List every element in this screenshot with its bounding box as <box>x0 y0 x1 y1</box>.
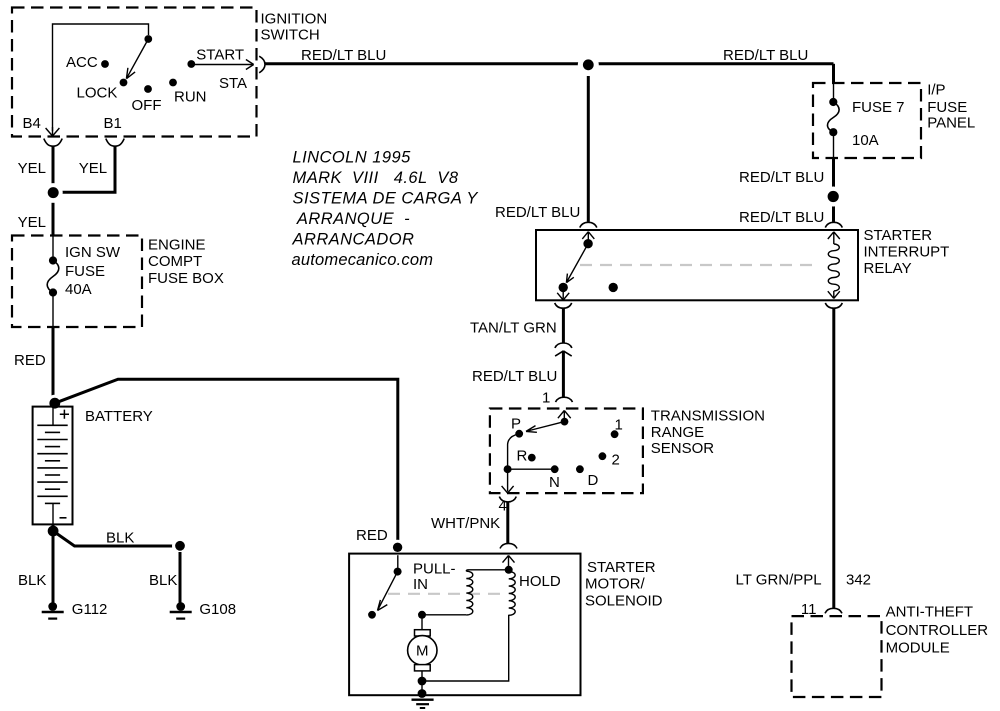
arrow relay left exit <box>557 293 569 300</box>
node starter feed junction <box>390 540 405 555</box>
svg-text:1: 1 <box>542 389 550 406</box>
contact D <box>576 465 584 473</box>
svg-text:PANEL: PANEL <box>927 115 975 132</box>
node solenoid switch pivot <box>394 568 402 576</box>
wire RED to starter <box>55 379 398 547</box>
svg-text:RED/LT BLU: RED/LT BLU <box>495 204 580 221</box>
node battery positive junction <box>46 395 63 412</box>
svg-text:BATTERY: BATTERY <box>85 408 153 425</box>
wire to I/P fuse panel <box>832 64 835 83</box>
svg-text:SISTEMA DE CARGA Y: SISTEMA DE CARGA Y <box>293 190 479 208</box>
arrow TRS input <box>558 411 571 422</box>
battery plus sign <box>60 410 69 419</box>
contact P <box>515 430 523 438</box>
svg-text:IGN SW: IGN SW <box>65 244 121 261</box>
arrow starter input <box>503 556 515 570</box>
node YEL junction <box>44 183 63 202</box>
svg-text:TAN/LT GRN: TAN/LT GRN <box>470 320 557 337</box>
svg-text:IGNITION: IGNITION <box>261 11 328 28</box>
starter interrupt relay box <box>536 230 858 300</box>
wire out of fuse <box>52 293 54 328</box>
svg-text:ANTI-THEFT: ANTI-THEFT <box>886 603 974 620</box>
svg-text:RED/LT BLU: RED/LT BLU <box>301 47 386 64</box>
connector starter input <box>500 543 517 548</box>
connector at ignition output <box>259 56 265 73</box>
relay mechanical link <box>580 264 818 266</box>
wire START to output <box>191 64 252 66</box>
relay contact lower <box>559 283 568 292</box>
arrow relay coil exit <box>828 291 840 298</box>
svg-text:STARTER: STARTER <box>864 227 933 244</box>
solenoid mechanical link <box>388 593 505 595</box>
svg-text:SENSOR: SENSOR <box>651 440 715 457</box>
node rotor pivot <box>144 35 152 43</box>
TRS wiper arrow <box>526 422 565 433</box>
svg-text:STARTER: STARTER <box>587 559 656 576</box>
connector B4 <box>44 139 62 147</box>
connector relay coil input <box>825 222 842 227</box>
svg-text:FUSE BOX: FUSE BOX <box>148 270 224 287</box>
arrow into B4 <box>46 127 60 136</box>
svg-text:4: 4 <box>499 498 507 515</box>
solenoid contact <box>368 611 376 619</box>
svg-text:RUN: RUN <box>174 89 207 106</box>
node BLK junction <box>172 538 188 554</box>
wire motor bottom <box>421 671 423 694</box>
node hold coil top <box>505 566 513 574</box>
battery plates <box>37 425 67 503</box>
ground G112 <box>48 602 57 611</box>
node motor negative <box>418 677 427 686</box>
svg-text:HOLD: HOLD <box>519 573 561 590</box>
svg-text:ARRANQUE -: ARRANQUE - <box>293 210 411 228</box>
contact LOCK <box>120 79 128 87</box>
inline connector female half <box>555 343 572 348</box>
wire RED/LT BLU top <box>265 62 834 65</box>
svg-text:CONTROLLER: CONTROLLER <box>886 622 989 639</box>
svg-text:COMPT: COMPT <box>148 253 202 270</box>
svg-text:BLK: BLK <box>106 530 134 547</box>
svg-text:STA: STA <box>219 75 247 92</box>
svg-text:LOCK: LOCK <box>77 85 118 102</box>
contact START <box>187 60 195 68</box>
wire into fuse <box>52 236 54 261</box>
svg-text:RANGE: RANGE <box>651 424 704 441</box>
wire RED battery feed <box>52 327 55 403</box>
node battery negative <box>48 526 59 537</box>
svg-text:D: D <box>588 472 599 489</box>
svg-text:RED/LT BLU: RED/LT BLU <box>739 169 824 186</box>
wire down to G108 <box>179 552 182 607</box>
svg-text:FUSE 7: FUSE 7 <box>852 99 905 116</box>
contact N <box>551 465 559 473</box>
solenoid wiper arrow <box>378 572 398 611</box>
transmission range sensor box <box>490 409 643 494</box>
battery positive stem <box>52 407 54 426</box>
svg-text:RED/LT BLU: RED/LT BLU <box>472 368 557 385</box>
wire fuse7 to relay <box>832 158 835 222</box>
pull-in coil <box>466 570 508 571</box>
connector anti-theft input <box>825 608 842 613</box>
wire YEL down <box>52 203 55 236</box>
svg-text:BLK: BLK <box>149 572 177 589</box>
contact 2 <box>599 452 607 460</box>
contact 1 <box>611 430 619 438</box>
node motor top junction <box>418 611 426 619</box>
svg-text:SWITCH: SWITCH <box>261 27 320 44</box>
svg-text:OFF: OFF <box>132 97 162 114</box>
svg-text:ENGINE: ENGINE <box>148 237 206 254</box>
svg-text:RED: RED <box>14 352 46 369</box>
node case ground <box>418 689 427 698</box>
wire into fuse 7 <box>833 83 835 102</box>
svg-text:P: P <box>511 416 521 433</box>
relay wiper arrow <box>566 244 588 283</box>
svg-text:LINCOLN 1995: LINCOLN 1995 <box>293 149 412 167</box>
svg-text:10A: 10A <box>852 132 879 149</box>
svg-text:B4: B4 <box>23 115 41 132</box>
svg-text:B1: B1 <box>104 115 122 132</box>
wire BLK to G108 <box>53 531 180 546</box>
svg-text:RED: RED <box>356 527 388 544</box>
connector relay coil exit <box>825 303 842 308</box>
ignition switch box <box>12 8 257 137</box>
fuse 7 <box>829 98 837 106</box>
svg-text:YEL: YEL <box>18 160 46 177</box>
svg-text:N: N <box>549 474 560 491</box>
arrow TRS exit <box>502 486 514 493</box>
svg-text:MARK VIII 4.6L V8: MARK VIII 4.6L V8 <box>293 169 459 187</box>
svg-text:BLK: BLK <box>18 572 46 589</box>
wire contact to exit <box>562 287 564 298</box>
arrow relay coil input <box>828 232 840 244</box>
svg-text:SOLENOID: SOLENOID <box>585 593 663 610</box>
svg-text:RED/LT BLU: RED/LT BLU <box>723 47 808 64</box>
svg-text:YEL: YEL <box>18 214 46 231</box>
svg-text:MODULE: MODULE <box>886 639 950 656</box>
relay contact spare <box>609 283 618 292</box>
motor M <box>415 630 431 636</box>
rotor wiper arrow <box>126 39 148 79</box>
relay coil <box>828 244 839 291</box>
svg-text:START: START <box>196 47 244 64</box>
wire relay to TRS <box>562 308 565 343</box>
connector relay left input <box>580 222 597 227</box>
svg-text:FUSE: FUSE <box>927 99 967 116</box>
battery negative stem <box>52 503 54 524</box>
svg-text:WHT/PNK: WHT/PNK <box>431 515 500 532</box>
battery minus sign <box>60 517 67 519</box>
svg-text:RED/LT BLU: RED/LT BLU <box>739 209 824 226</box>
svg-text:YEL: YEL <box>79 160 107 177</box>
ground starter case <box>412 699 434 701</box>
svg-text:G112: G112 <box>72 601 108 618</box>
starter motor solenoid box <box>349 554 580 696</box>
contact ACC <box>101 60 109 68</box>
I/P fuse panel box <box>813 83 921 158</box>
svg-text:M: M <box>416 643 429 660</box>
svg-text:INTERRUPT: INTERRUPT <box>864 244 950 261</box>
connector B1 <box>106 139 124 147</box>
node TRS rotor <box>561 418 569 426</box>
wire WHT/PNK <box>506 502 509 543</box>
fuse IGN SW 40A <box>49 256 57 264</box>
wire to motor <box>421 615 423 630</box>
svg-text:MOTOR/: MOTOR/ <box>585 576 646 593</box>
ground G108 <box>176 602 185 611</box>
wire red into solenoid switch <box>397 555 399 571</box>
wire hold coil to motor bottom <box>422 615 509 681</box>
connector relay left exit <box>555 303 572 308</box>
svg-text:2: 2 <box>612 452 620 469</box>
wire YEL B1 <box>60 146 115 192</box>
wire relay coil to anti-theft <box>832 308 835 608</box>
svg-text:ACC: ACC <box>66 54 98 71</box>
arrow relay left input <box>582 232 594 244</box>
wire TRS exit <box>507 469 509 491</box>
wire out of fuse 7 <box>833 132 835 158</box>
svg-text:40A: 40A <box>65 281 92 298</box>
node relay common <box>583 239 592 248</box>
node TRS output junction <box>504 465 512 473</box>
svg-text:1: 1 <box>615 417 623 434</box>
svg-text:ARRANCADOR: ARRANCADOR <box>292 231 415 249</box>
svg-text:342: 342 <box>846 572 871 589</box>
hold coil <box>509 572 516 616</box>
engine compartment fuse box <box>12 236 142 328</box>
wire junction to relay left <box>587 76 590 222</box>
connector TRS input <box>556 397 573 402</box>
arrow START output <box>246 60 254 70</box>
node relay coil junction <box>823 187 843 207</box>
svg-text:PULL-: PULL- <box>413 561 456 578</box>
svg-text:TRANSMISSION: TRANSMISSION <box>651 408 765 425</box>
battery box <box>33 407 73 525</box>
svg-text:I/P: I/P <box>927 82 945 99</box>
contact RUN <box>169 79 177 87</box>
svg-text:G108: G108 <box>199 601 236 618</box>
wire YEL B4 <box>52 146 55 192</box>
wire pull-in coil to motor <box>422 614 466 616</box>
svg-text:automecanico.com: automecanico.com <box>292 251 434 269</box>
svg-text:FUSE: FUSE <box>65 263 105 280</box>
wire B4 feed inside ignition switch <box>53 24 149 131</box>
anti-theft controller module box <box>792 616 882 697</box>
connector TRS output <box>499 497 516 502</box>
contact R <box>528 454 536 462</box>
inline connector male half <box>555 351 572 356</box>
svg-text:RELAY: RELAY <box>864 260 912 277</box>
svg-text:LT GRN/PPL: LT GRN/PPL <box>736 572 822 589</box>
wire P to N <box>508 434 555 470</box>
wire connector to TRS <box>562 351 565 398</box>
wire battery to G112 <box>52 524 55 606</box>
svg-text:IN: IN <box>413 576 428 593</box>
svg-text:R: R <box>517 448 528 465</box>
node top junction <box>578 54 599 75</box>
contact OFF <box>144 85 152 93</box>
